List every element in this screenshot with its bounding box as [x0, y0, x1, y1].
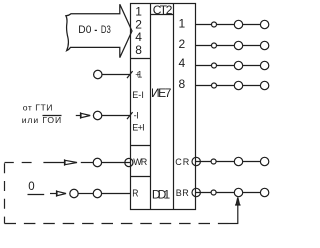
wire R to chip: [102, 193, 131, 195]
overline on GOI: [43, 115, 62, 117]
svg-text:WR: WR: [133, 157, 147, 167]
mid circle CR: [234, 157, 242, 165]
inversion bubble WR: [125, 158, 133, 166]
wire BR: [196, 192, 261, 194]
wire output 8: [196, 85, 261, 87]
output row 4: [196, 61, 269, 69]
output row 8: [196, 81, 269, 89]
svg-text:от ГТИ: от ГТИ: [23, 102, 53, 112]
chip divider left column: [150, 4, 152, 210]
small circle BR: [211, 190, 216, 195]
end circle output 8: [260, 81, 268, 89]
small circle output 8: [212, 83, 217, 88]
chip divider right column: [173, 4, 175, 210]
wire -1 input tail: [76, 115, 81, 117]
dashed control box bottom edge: [5, 223, 229, 225]
dashed control box top edge: [5, 162, 32, 164]
svg-text:1: 1: [135, 4, 142, 18]
CR output row: [192, 157, 269, 165]
small circle output 1: [212, 22, 217, 27]
wire feedback vertical to BR: [237, 205, 239, 224]
svg-text:R: R: [132, 189, 138, 200]
bus arrow D0-D3: [66, 4, 132, 57]
wire feedback corner: [229, 223, 239, 225]
small circle output 2: [212, 43, 217, 48]
CT2 label box line: [151, 14, 174, 16]
separator between WR and R: [131, 176, 151, 178]
arrow R input: [57, 190, 67, 196]
dynamic input slash +1: [127, 71, 133, 78]
svg-text:4: 4: [178, 56, 185, 70]
end circle output 1: [260, 20, 268, 28]
wire WR to chip: [102, 162, 131, 164]
svg-text:2: 2: [178, 37, 185, 51]
small circle output 4: [212, 63, 217, 68]
svg-text:8: 8: [178, 77, 185, 91]
separator under data inputs: [131, 58, 151, 60]
arrow feedback up: [235, 197, 241, 205]
svg-text:ИЕ7: ИЕ7: [151, 86, 172, 100]
node: WR terminal circle: [93, 158, 101, 166]
node: R terminal circle 2: [93, 189, 101, 197]
arrow -1 input: [81, 112, 91, 118]
wire output 2: [196, 45, 261, 47]
svg-text:BR: BR: [176, 188, 190, 198]
wire R row tail: [50, 193, 57, 195]
svg-text:8: 8: [135, 43, 142, 57]
svg-text:1: 1: [178, 16, 185, 30]
svg-text:E+I: E+I: [132, 123, 145, 133]
mid circle output 4: [234, 61, 242, 69]
underline of 0: [28, 194, 45, 196]
wire WR row tail: [43, 162, 64, 164]
wire CR: [196, 161, 261, 163]
wire output 1: [196, 24, 261, 26]
svg-text:0: 0: [28, 181, 34, 193]
mid circle BR: [234, 188, 242, 196]
inversion bubble BR: [192, 188, 200, 196]
small circle CR: [211, 159, 216, 164]
output row 2: [196, 41, 269, 49]
node: R terminal circle 1: [70, 189, 78, 197]
svg-text:E-I: E-I: [132, 90, 144, 100]
mid circle output 8: [234, 81, 242, 89]
wire output 4: [196, 65, 261, 67]
BR output row: [192, 188, 269, 196]
end circle output 2: [260, 41, 268, 49]
dashed control box left edge: [4, 163, 6, 223]
mid circle output 1: [234, 20, 242, 28]
wire R between circles: [78, 193, 93, 195]
svg-text:или ГОИ: или ГОИ: [22, 115, 62, 125]
node: -1 input terminal circle: [93, 111, 101, 119]
end circle output 4: [260, 61, 268, 69]
node: +1 input terminal circle: [94, 70, 102, 78]
end circle CR: [260, 157, 268, 165]
end circle BR: [260, 188, 268, 196]
mid circle output 2: [234, 41, 242, 49]
svg-text:-I: -I: [134, 111, 139, 121]
dynamic input slash -1: [127, 112, 133, 119]
svg-text:DD1: DD1: [152, 187, 171, 201]
chip DD1 outline: [131, 4, 196, 210]
svg-text:СТ2: СТ2: [153, 3, 173, 17]
svg-text:+1: +1: [135, 69, 142, 79]
svg-text:D3: D3: [101, 24, 111, 36]
wire WR arrow to circle: [81, 162, 93, 164]
wire -1 input: [102, 115, 131, 117]
separator above WR: [131, 145, 151, 147]
svg-text:D0: D0: [78, 24, 91, 36]
inversion bubble CR: [192, 157, 200, 165]
svg-text:CR: CR: [175, 157, 189, 167]
arrow WR input: [65, 159, 78, 165]
output row 1: [196, 20, 269, 28]
wire +1 input: [102, 74, 131, 76]
